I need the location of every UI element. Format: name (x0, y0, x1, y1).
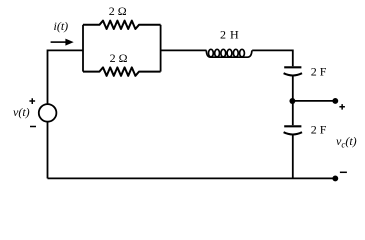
svg-text:vc(t): vc(t) (336, 134, 357, 150)
resistor box right edge (160, 25, 162, 72)
bottom rail wire (48, 177, 336, 179)
svg-text:2 Ω: 2 Ω (109, 4, 127, 18)
svg-text:2 F: 2 F (311, 65, 327, 79)
svg-text:v(t): v(t) (13, 105, 30, 119)
capacitor C1 top plate (284, 66, 301, 68)
wire from middle node down to C2 (292, 101, 294, 125)
minus sign at vc terminal (340, 171, 347, 173)
current arrow head (65, 39, 73, 46)
resistor R1 (top 2 ohm) (83, 21, 161, 29)
wire from source bottom down to bottom rail (47, 122, 49, 178)
resistor box left edge (82, 25, 84, 72)
plus terminal dot (332, 98, 338, 104)
svg-text:2 H: 2 H (220, 28, 239, 42)
inductor L (2 H) loops (209, 49, 245, 57)
wire from C1 to middle node (292, 76, 294, 101)
inductor L (2 H) bottom path (206, 50, 252, 57)
plus sign of source (29, 98, 35, 104)
middle node junction dot (289, 98, 295, 104)
plus sign at vc terminal (339, 104, 345, 110)
minus terminal dot (332, 175, 338, 181)
capacitor C1 curved plate (284, 73, 302, 75)
svg-text:2 Ω: 2 Ω (110, 51, 128, 65)
svg-text:2 F: 2 F (311, 123, 327, 137)
capacitor C2 curved plate (284, 132, 302, 134)
svg-text:i(t): i(t) (54, 19, 69, 33)
voltage source v(t) circle (39, 104, 57, 122)
resistor R2 (bottom 2 ohm) (83, 67, 161, 75)
capacitor C2 top plate (284, 125, 301, 127)
wire from source top up and right to resistor box (48, 50, 84, 103)
minus sign of source (30, 126, 36, 128)
wire from box to inductor (161, 49, 207, 51)
wire from inductor to top right corner and down to C1 (252, 50, 293, 66)
wire from C2 to bottom rail (292, 135, 294, 179)
current arrow shaft (51, 41, 67, 43)
wire from middle node to plus terminal (292, 100, 335, 102)
